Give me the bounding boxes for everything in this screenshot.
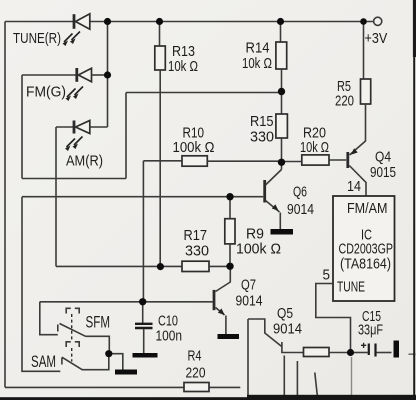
- svg-text:330: 330: [250, 130, 274, 146]
- svg-text:SAM: SAM: [31, 353, 56, 371]
- svg-text:R4: R4: [188, 349, 202, 365]
- svg-text:5: 5: [323, 268, 331, 284]
- svg-text:R14: R14: [246, 41, 270, 57]
- svg-text:330: 330: [185, 244, 209, 260]
- svg-text:(TA8164): (TA8164): [340, 257, 391, 273]
- svg-text:100k Ω: 100k Ω: [173, 140, 215, 156]
- svg-text:10k Ω: 10k Ω: [300, 140, 329, 156]
- svg-text:FM/AM: FM/AM: [347, 201, 388, 217]
- svg-text:10k Ω: 10k Ω: [242, 56, 272, 72]
- svg-text:220: 220: [335, 94, 354, 110]
- svg-text:C10: C10: [158, 314, 178, 330]
- svg-text:9014: 9014: [273, 322, 302, 338]
- svg-text:CD2003GP: CD2003GP: [339, 242, 394, 258]
- svg-text:100k Ω: 100k Ω: [236, 242, 281, 258]
- svg-text:AM(R): AM(R): [66, 152, 103, 169]
- svg-text:+3V: +3V: [365, 31, 388, 47]
- svg-text:Q7: Q7: [241, 278, 256, 294]
- svg-text:SFM: SFM: [86, 314, 111, 332]
- svg-text:14: 14: [347, 179, 361, 195]
- svg-text:9014: 9014: [287, 202, 314, 218]
- svg-text:9015: 9015: [370, 165, 396, 181]
- svg-text:TUNE(R): TUNE(R): [13, 30, 61, 47]
- svg-text:Q4: Q4: [375, 150, 391, 166]
- svg-text:R15: R15: [250, 114, 274, 130]
- svg-text:R13: R13: [172, 44, 195, 60]
- svg-text:9014: 9014: [236, 294, 263, 310]
- svg-text:33μF: 33μF: [358, 323, 383, 339]
- svg-text:FM(G): FM(G): [26, 84, 66, 101]
- svg-text:TUNE: TUNE: [337, 280, 365, 296]
- svg-text:R17: R17: [184, 228, 208, 244]
- svg-text:100n: 100n: [156, 329, 183, 345]
- svg-text:R9: R9: [246, 227, 264, 243]
- svg-text:Q6: Q6: [293, 185, 307, 201]
- svg-text:10k Ω: 10k Ω: [168, 59, 198, 75]
- svg-text:Q5: Q5: [277, 306, 293, 322]
- svg-text:220: 220: [186, 366, 206, 382]
